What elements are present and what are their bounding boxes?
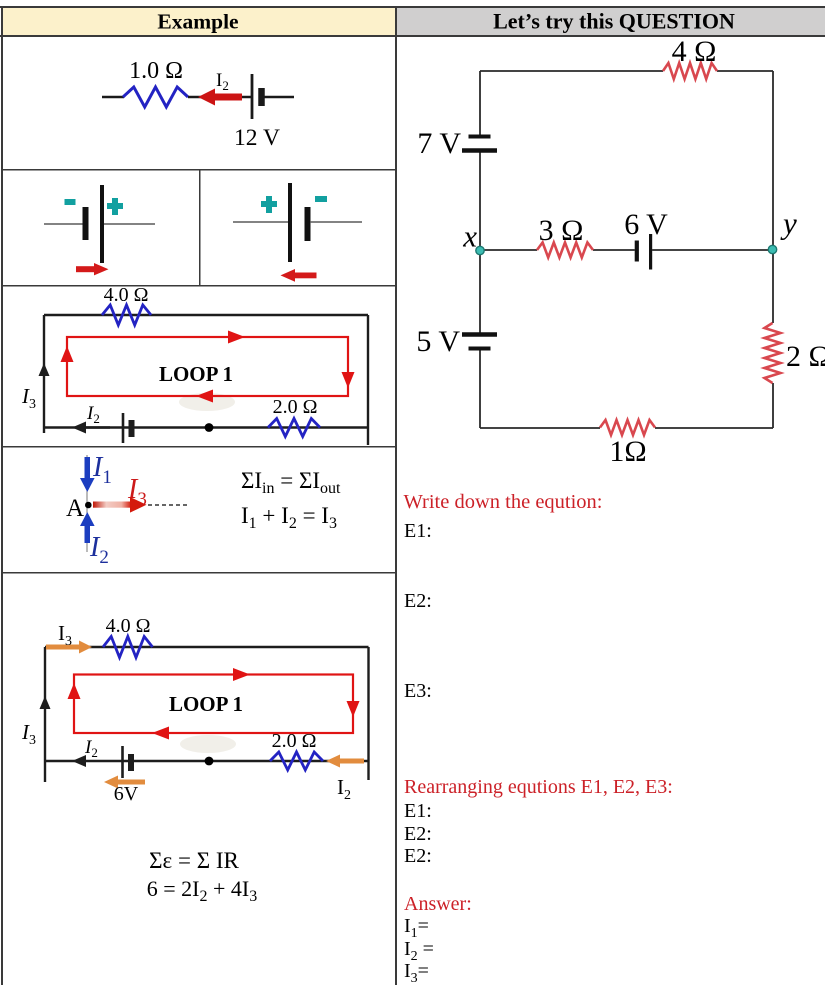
red loop 1 rectangle [74, 675, 353, 734]
plus sign teal [107, 198, 123, 215]
row border under section 4 [2, 572, 396, 574]
thin vertical guide line [86, 455, 88, 552]
svg-text:E2:: E2: [404, 823, 432, 845]
loop arrow bottom (left) [196, 390, 213, 403]
svg-text:4.0 Ω: 4.0 Ω [106, 615, 151, 637]
svg-text:Σε = Σ IR: Σε = Σ IR [149, 848, 239, 873]
red loop 1 rectangle [67, 337, 348, 396]
battery long plate (positive) [288, 183, 292, 262]
table left border [1, 6, 3, 985]
svg-text:I1: I1 [92, 452, 112, 488]
battery short thick plate (negative) [83, 207, 89, 240]
svg-text:x: x [462, 219, 477, 254]
node x (teal) [476, 246, 484, 254]
svg-text:2.0 Ω: 2.0 Ω [272, 730, 317, 752]
svg-text:A: A [66, 495, 84, 522]
svg-text:E3:: E3: [404, 680, 432, 702]
table header background left [2, 7, 396, 36]
svg-text:I1 + I2 = I3: I1 + I2 = I3 [241, 503, 337, 532]
svg-text:I3: I3 [21, 384, 36, 412]
svg-text:y: y [780, 206, 797, 241]
resistor 4.0 ohm [103, 637, 153, 658]
loop arrow left (up) [68, 683, 81, 699]
divider between battery cells [199, 169, 201, 286]
battery 6V short plate [635, 241, 639, 262]
resistor 4 ohm [663, 63, 717, 79]
wire left of resistor R 1.0ohm [102, 96, 124, 99]
table column divider [395, 6, 397, 985]
row border under section 3 [2, 446, 396, 448]
wire left [44, 223, 85, 225]
svg-text:Rearranging equtions E1, E2, E: Rearranging equtions E1, E2, E3: [404, 776, 673, 798]
battery long plate on bottom wire [122, 413, 125, 443]
battery short thick plate [128, 754, 134, 771]
dashed line from node [148, 504, 188, 506]
minus sign teal [315, 196, 327, 202]
loop arrow right (down) [342, 372, 355, 388]
wire between resistor and battery [188, 96, 252, 99]
svg-text:4.0 Ω: 4.0 Ω [104, 284, 149, 306]
battery long plate (positive) [100, 185, 104, 263]
current arrow I1 (blue, down) [80, 457, 95, 492]
svg-text:6V: 6V [114, 783, 139, 805]
resistor 2.0 ohm [270, 752, 323, 770]
battery 5V long plate [462, 332, 497, 337]
current arrow I2 on bottom wire (black, left) [72, 755, 86, 767]
junction node dot [205, 757, 214, 766]
svg-text:Let’s try this QUESTION: Let’s try this QUESTION [493, 9, 735, 34]
svg-text:I3: I3 [58, 621, 72, 649]
svg-text:LOOP 1: LOOP 1 [159, 362, 233, 386]
table header background right [396, 7, 825, 36]
outer circuit wire (top, left, right, bottom) [43, 315, 368, 445]
plus sign teal [261, 196, 277, 213]
current arrow red pointing right [76, 263, 109, 275]
svg-text:E2:: E2: [404, 845, 432, 867]
node y (teal) [768, 245, 776, 253]
battery short thick plate (negative) [305, 207, 311, 241]
smudge artifact [179, 393, 235, 411]
current direction arrow on left wire (up) [40, 696, 51, 709]
wire right [310, 221, 362, 223]
svg-text:I2: I2 [337, 775, 351, 803]
orange arrow right of 2.0 ohm (left) [326, 755, 364, 768]
svg-text:1.0 Ω: 1.0 Ω [129, 58, 183, 84]
resistor 4.0 ohm [102, 305, 151, 325]
battery 6V long plate [649, 234, 652, 270]
resistor 2.0 ohm [268, 419, 320, 437]
current arrow I2 on bottom wire (black, left) [72, 422, 86, 434]
svg-text:2 Ω: 2 Ω [786, 340, 825, 373]
svg-text:6 = 2I2 + 4I3: 6 = 2I2 + 4I3 [147, 876, 257, 905]
current arrow I3 orange on top wire (right) [46, 641, 92, 654]
resistor 3 ohm [537, 243, 593, 258]
svg-text:Answer:: Answer: [404, 893, 472, 915]
loop arrow right (down) [347, 701, 360, 717]
orange arrow under battery (left) [104, 776, 145, 789]
svg-text:ΣIin = ΣIout: ΣIin = ΣIout [241, 468, 341, 497]
node A dot [85, 502, 92, 509]
svg-text:Write down the eqution:: Write down the eqution: [404, 491, 603, 513]
svg-text:E1:: E1: [404, 520, 432, 542]
loop arrow left (up) [61, 346, 74, 362]
svg-text:LOOP 1: LOOP 1 [169, 692, 243, 716]
svg-text:I2: I2 [84, 737, 98, 760]
junction node dot [205, 423, 214, 432]
battery 12V long plate [251, 74, 254, 119]
svg-text:3 Ω: 3 Ω [539, 214, 584, 247]
table outer top border [0, 6, 825, 8]
battery 5V short plate [469, 347, 491, 351]
outer circuit wire [44, 647, 369, 782]
loop arrow bottom (left) [152, 727, 169, 740]
current arrow I2 (blue, up) [80, 512, 95, 543]
current direction arrow on left wire (up) [39, 363, 50, 376]
svg-text:12 V: 12 V [234, 125, 280, 151]
loop arrow top (right) [228, 331, 245, 344]
resistor 1.0 ohm [123, 87, 188, 107]
svg-text:I2: I2 [86, 403, 100, 426]
smudge artifact [180, 735, 236, 753]
resistor 2 ohm (vertical) [765, 323, 781, 383]
wire left [233, 221, 289, 223]
svg-text:I3: I3 [127, 474, 147, 510]
svg-text:4 Ω: 4 Ω [672, 35, 717, 68]
row border under section 1 [2, 169, 396, 171]
svg-text:E1:: E1: [404, 800, 432, 822]
battery short thick plate [129, 420, 135, 437]
resistor 1 ohm [600, 420, 655, 435]
wire right [104, 223, 155, 225]
current arrow I2 (red, pointing left) [198, 89, 242, 106]
svg-text:I2: I2 [216, 70, 229, 93]
svg-text:I2: I2 [89, 532, 109, 568]
row border under section 2 [2, 285, 396, 287]
minus sign teal [65, 199, 76, 205]
svg-text:2.0 Ω: 2.0 Ω [273, 396, 318, 418]
battery 12V short thick plate [258, 88, 265, 106]
svg-text:7 V: 7 V [417, 127, 461, 160]
svg-text:1Ω: 1Ω [609, 435, 646, 468]
svg-text:E2:: E2: [404, 590, 432, 612]
loop arrow top (right) [233, 668, 250, 681]
svg-text:6 V: 6 V [624, 208, 668, 241]
circuit outline wires [480, 71, 773, 428]
svg-text:I3: I3 [21, 720, 36, 748]
battery 7V long plate [462, 148, 497, 153]
battery 7V short plate [469, 135, 491, 139]
wire right of battery [264, 96, 294, 99]
battery long plate on bottom wire [121, 746, 124, 778]
svg-text:Example: Example [157, 10, 238, 34]
svg-text:5 V: 5 V [416, 325, 460, 358]
header bottom border [0, 35, 825, 37]
current arrow red pointing left [281, 269, 317, 282]
